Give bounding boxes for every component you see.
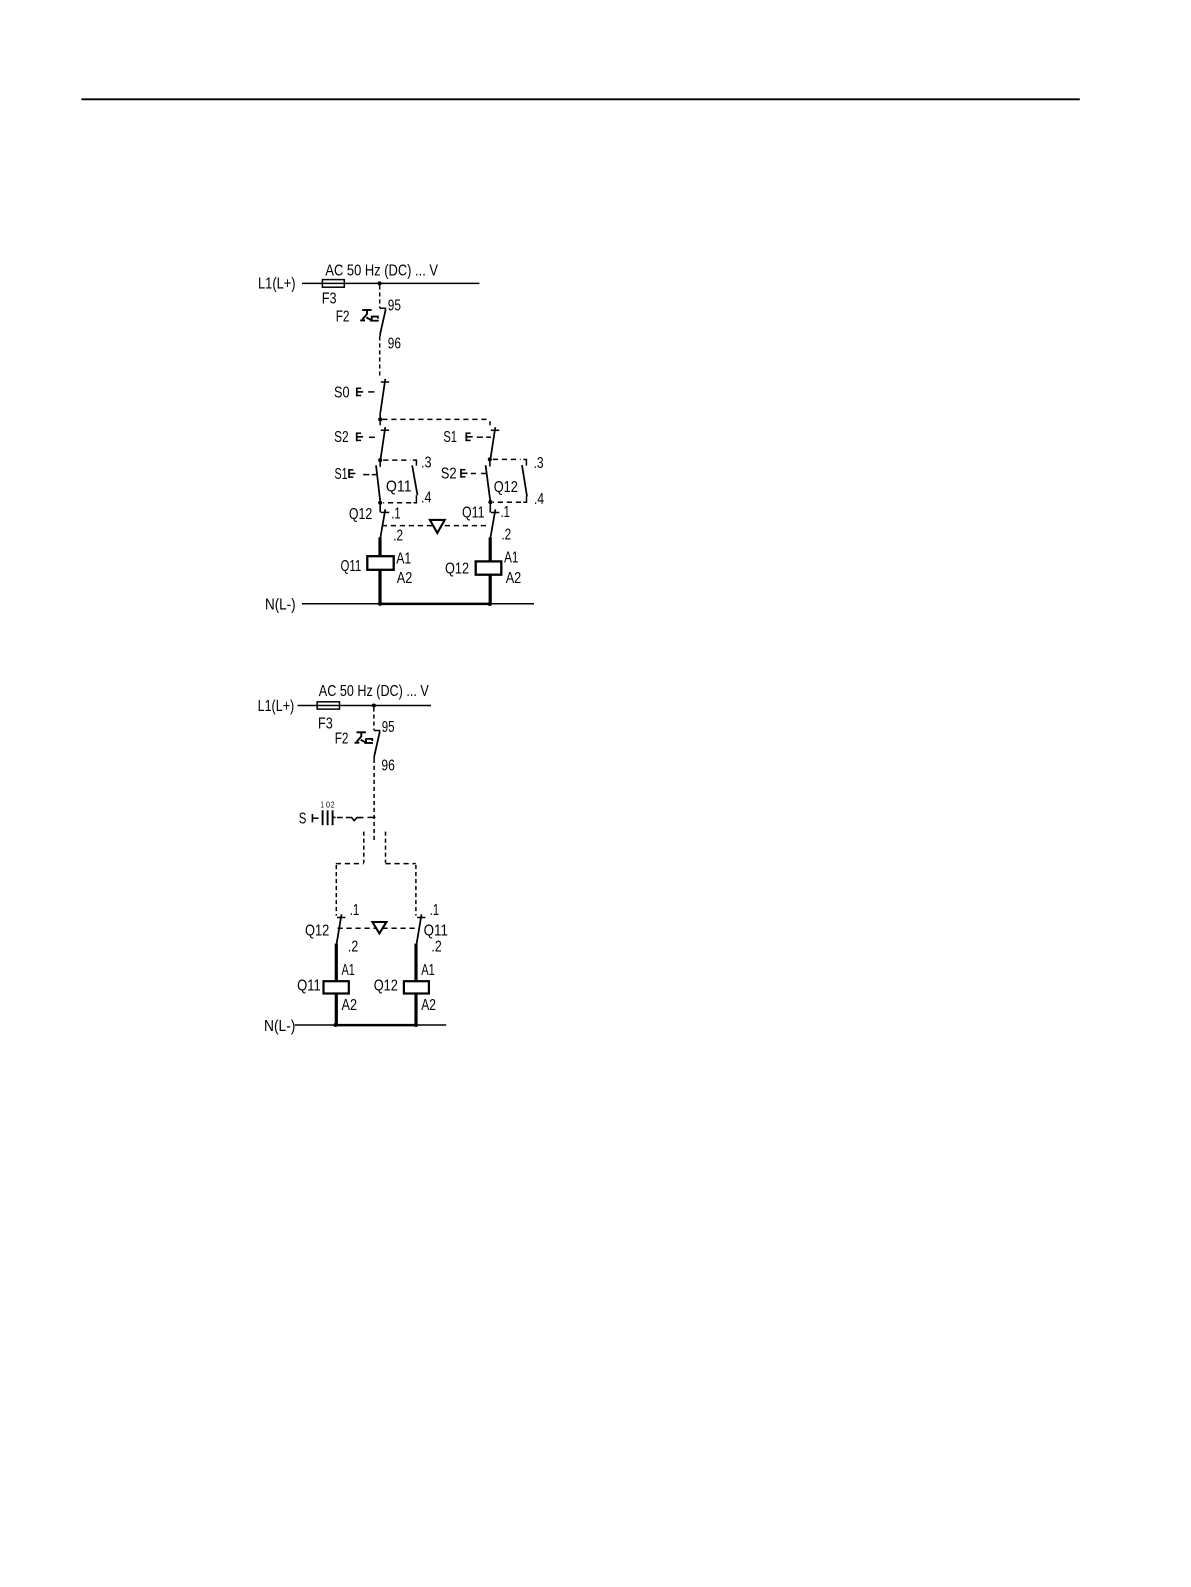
svg-text:N(L-): N(L-) [264, 1018, 295, 1035]
svg-text:L1(L+): L1(L+) [258, 276, 296, 293]
svg-text:.4: .4 [534, 491, 544, 508]
svg-text:Q12: Q12 [494, 479, 518, 496]
node L1(L+) supply rail 2 [298, 705, 432, 707]
svg-text:.1: .1 [391, 505, 401, 522]
svg-text:A2: A2 [397, 570, 413, 587]
overload relay contact F2 (95-96, circuit 2) [374, 731, 380, 734]
svg-text:A2: A2 [506, 570, 522, 587]
wire thick coil Q12 to N [489, 575, 492, 604]
svg-text:95: 95 [388, 298, 401, 315]
wire dashed latch branch top left [383, 459, 410, 461]
wire thick to coil Q11 [378, 537, 381, 556]
node left latch top [378, 458, 382, 462]
wire dashed latch branch bottom right [493, 501, 521, 503]
svg-text:.2: .2 [393, 528, 403, 545]
wire dashed selector link [337, 817, 343, 819]
svg-text:Q12: Q12 [374, 977, 398, 994]
svg-text:F3: F3 [322, 290, 337, 307]
svg-text:A1: A1 [396, 551, 411, 568]
wire thick coil Q12 to N (circuit 2) [414, 994, 417, 1026]
svg-text:A1: A1 [504, 549, 518, 566]
wire thick coil Q11 to N [378, 570, 381, 604]
svg-text:A2: A2 [421, 997, 436, 1014]
node right row4 [488, 500, 492, 504]
coil Q12 (contactor, right) [476, 561, 502, 574]
auxiliary contact Q11 .3/.4 (latch, left) [412, 465, 417, 495]
svg-text:A1: A1 [421, 962, 435, 979]
wire dashed node to S2 [379, 421, 381, 426]
svg-text:0: 0 [326, 801, 330, 810]
svg-text:96: 96 [381, 758, 395, 775]
node L1(L+) supply rail [302, 282, 479, 284]
svg-text:Q12: Q12 [349, 506, 372, 523]
svg-text:S: S [299, 810, 307, 827]
svg-text:F2: F2 [335, 731, 349, 748]
coil Q11 (contactor, left) [367, 556, 393, 570]
svg-text:F2: F2 [336, 309, 350, 326]
node junction at F2 branch 2 [372, 703, 376, 707]
page header rule [81, 98, 1079, 100]
svg-text:.3: .3 [421, 455, 432, 472]
svg-text:1: 1 [321, 801, 325, 810]
svg-text:2: 2 [331, 801, 335, 810]
svg-text:AC 50 Hz (DC) ... V: AC 50 Hz (DC) ... V [325, 262, 438, 279]
contact S2 NC (right branch interlock) [489, 461, 491, 467]
wire dashed corner left [336, 863, 364, 865]
fuse F3 (circuit 2) [317, 702, 339, 709]
svg-text:Q11: Q11 [297, 977, 321, 994]
svg-text:N(L-): N(L-) [265, 597, 296, 614]
svg-text:Q11: Q11 [341, 558, 362, 575]
node N(L-) rail 2 [295, 1024, 446, 1026]
svg-text:S2: S2 [441, 466, 457, 483]
svg-text:Q11: Q11 [462, 504, 485, 521]
coil Q11 (circuit 2, left) [324, 981, 349, 993]
svg-text:A2: A2 [342, 997, 358, 1014]
svg-text:.1: .1 [430, 902, 439, 919]
svg-text:96: 96 [388, 335, 401, 352]
pushbutton S0 (stop) [381, 381, 389, 383]
svg-text:S1: S1 [443, 429, 457, 446]
wire dashed corner right [386, 863, 416, 865]
svg-text:95: 95 [382, 719, 395, 736]
wire thick to coil Q11 (circuit 2) [335, 944, 338, 982]
svg-text:.1: .1 [350, 902, 360, 919]
svg-text:F3: F3 [318, 716, 333, 733]
wire thick to coil Q12 (circuit 2) [414, 944, 417, 982]
contact Q11 NC (interlock, right, circuit 2) [417, 917, 425, 919]
svg-text:.1: .1 [501, 504, 511, 521]
fuse F3 [322, 280, 344, 288]
svg-text:S1: S1 [335, 466, 348, 483]
svg-text:.3: .3 [534, 455, 544, 472]
svg-text:S2: S2 [334, 429, 349, 446]
svg-text:Q11: Q11 [424, 923, 448, 940]
node right latch top [488, 457, 492, 461]
wire dashed rail to F2 (circuit 2) [373, 708, 375, 731]
svg-text:AC 50 Hz (DC) ... V: AC 50 Hz (DC) ... V [319, 683, 429, 700]
wire S0 to node [379, 412, 381, 417]
wire thick to coil Q12 [489, 537, 492, 561]
wire dashed F2 to S0 [379, 334, 381, 337]
svg-text:Q12: Q12 [305, 923, 329, 940]
svg-text:.2: .2 [501, 527, 511, 544]
node left row4 [378, 501, 382, 505]
contact Q12 NC (interlock, left, circuit 2) [337, 917, 345, 919]
auxiliary contact Q12 .3/.4 (latch, right) [522, 465, 527, 496]
wire dashed to S1 right branch [489, 421, 491, 426]
contact Q11 NC (electrical interlock, right) [489, 503, 491, 512]
node junction at F2 branch [378, 281, 382, 285]
wire dashed latch branch top right [493, 458, 521, 460]
mechanical interlock dashed link with triangle (circuit 2) [338, 927, 415, 929]
svg-text:Q11: Q11 [386, 478, 412, 495]
mechanical interlock dashed link with triangle [382, 525, 489, 527]
svg-text:S0: S0 [334, 384, 350, 401]
pushbutton S1 (right branch, start) [491, 429, 499, 431]
wire dashed from rail to F2 [379, 285, 381, 308]
contact Q12 NC (electrical interlock, left) [379, 504, 381, 512]
svg-text:.2: .2 [431, 939, 441, 956]
svg-text:.4: .4 [421, 490, 432, 507]
node N(L-) rail [302, 603, 534, 605]
svg-text:.2: .2 [348, 939, 358, 956]
overload relay contact F2 (95-96) [380, 308, 386, 311]
wire dashed latch branch bottom left [383, 502, 411, 504]
node branch junction below S0 [378, 417, 382, 421]
pushbutton S2 (left branch, start) [381, 429, 389, 431]
wire thick coil Q11 to N (circuit 2) [335, 994, 338, 1026]
coil Q12 (circuit 2, right) [404, 981, 429, 993]
svg-text:L1(L+): L1(L+) [258, 698, 295, 715]
svg-text:Q12: Q12 [445, 561, 469, 578]
wire dashed split to branches [363, 832, 365, 863]
wire dashed F2 to S (circuit 2) [373, 756, 375, 759]
wire dashed cross-link to right branch [382, 418, 490, 420]
contact S1 NC (left branch interlock) [379, 461, 381, 466]
svg-text:A1: A1 [342, 962, 355, 979]
